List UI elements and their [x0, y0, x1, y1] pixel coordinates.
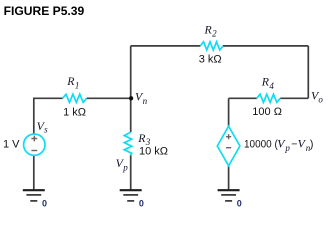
- svg-text:1: 1: [75, 80, 80, 90]
- wire middle vertical bottom (R3 to ground): [130, 155, 132, 190]
- svg-text:o: o: [318, 94, 323, 104]
- wire top R2 row left: [131, 45, 201, 47]
- source minus sign: [31, 150, 37, 152]
- svg-text:10 kΩ: 10 kΩ: [139, 146, 168, 158]
- wire left vertical top (Vs to R1 row): [33, 98, 35, 134]
- svg-text:4: 4: [269, 81, 274, 91]
- dependent source diamond: [217, 126, 240, 166]
- wire R1 row right: [87, 97, 131, 99]
- svg-text:1 kΩ: 1 kΩ: [63, 106, 86, 118]
- source plus sign: [31, 136, 37, 142]
- svg-text:p: p: [122, 162, 128, 172]
- svg-text:s: s: [44, 124, 48, 134]
- svg-text:2: 2: [212, 29, 217, 39]
- wire R4 row left: [229, 97, 257, 99]
- dependent source plus: [226, 134, 231, 139]
- resistor R3 (vertical): [124, 132, 131, 155]
- svg-text:0: 0: [139, 199, 144, 209]
- svg-text:10000 (: 10000 (: [244, 139, 278, 151]
- voltage source Vs circle: [24, 134, 45, 155]
- svg-text:): ): [310, 139, 314, 151]
- svg-text:−: −: [291, 139, 297, 151]
- ground 2 (middle): [120, 190, 142, 201]
- svg-text:p: p: [284, 143, 290, 153]
- svg-text:3 kΩ: 3 kΩ: [199, 54, 222, 66]
- dependent source minus: [226, 147, 231, 149]
- svg-text:n: n: [143, 96, 148, 106]
- svg-text:0: 0: [42, 199, 47, 209]
- resistor R2: [200, 42, 223, 50]
- svg-text:FIGURE P5.39: FIGURE P5.39: [4, 4, 85, 18]
- resistor R1: [63, 94, 87, 102]
- node Vn dot: [129, 96, 133, 100]
- wire left vertical bottom (Vs to ground): [33, 155, 35, 190]
- wire R1 row left: [33, 97, 63, 99]
- svg-text:0: 0: [237, 199, 242, 209]
- wire R4 row right: [280, 97, 308, 99]
- wire dependent source top: [228, 98, 230, 126]
- wire right vertical (top row to R4 row): [307, 46, 309, 98]
- ground 3 (right): [218, 190, 240, 201]
- svg-text:100 Ω: 100 Ω: [252, 106, 282, 118]
- ground 1 (left): [23, 190, 45, 201]
- wire middle vertical (top corner through Vn to R3): [130, 46, 132, 132]
- svg-text:1 V: 1 V: [3, 139, 20, 151]
- resistor R4: [257, 94, 280, 102]
- wire dependent source bottom: [228, 166, 230, 191]
- wire top R2 row right: [223, 45, 308, 47]
